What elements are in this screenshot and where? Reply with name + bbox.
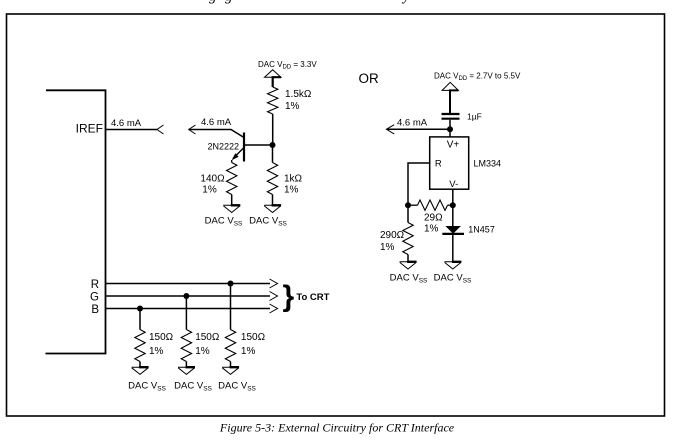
svg-text:OR: OR (359, 71, 380, 86)
svg-text:1µF: 1µF (467, 112, 482, 122)
svg-text:29Ω: 29Ω (424, 213, 443, 224)
svg-text:DAC VSS: DAC VSS (218, 381, 256, 393)
svg-text:Figure 5-3: External Circuitry: Figure 5-3: External Circuitry for CRT I… (219, 421, 455, 435)
svg-text:IREF: IREF (76, 122, 103, 136)
svg-text:1%: 1% (424, 224, 439, 235)
svg-text:g: g (225, 0, 233, 5)
svg-text:290Ω: 290Ω (380, 230, 405, 241)
svg-text:4.6 mA: 4.6 mA (111, 118, 142, 129)
svg-text:1%: 1% (285, 101, 300, 112)
svg-text:DAC VSS: DAC VSS (434, 273, 472, 285)
svg-text:1kΩ: 1kΩ (284, 174, 303, 185)
svg-text:1.5kΩ: 1.5kΩ (285, 89, 312, 100)
svg-text:DAC VSS: DAC VSS (128, 381, 166, 393)
svg-text:V-: V- (449, 179, 458, 190)
svg-text:R: R (91, 279, 99, 291)
svg-text:G: G (90, 292, 99, 304)
svg-text:R: R (435, 159, 442, 170)
svg-text:DAC VDD = 2.7V to 5.5V: DAC VDD = 2.7V to 5.5V (434, 72, 521, 83)
svg-text:140Ω: 140Ω (200, 174, 225, 185)
svg-text:1%: 1% (241, 346, 256, 357)
svg-text:DAC VDD = 3.3V: DAC VDD = 3.3V (258, 60, 317, 71)
svg-text:1%: 1% (284, 185, 299, 196)
svg-text:To CRT: To CRT (296, 292, 329, 303)
svg-text:1%: 1% (202, 185, 217, 196)
svg-text:1%: 1% (149, 346, 164, 357)
svg-text:}: } (283, 280, 295, 313)
svg-text:1N457: 1N457 (468, 225, 495, 235)
svg-text:4.6 mA: 4.6 mA (397, 118, 428, 129)
svg-text:1%: 1% (380, 242, 395, 253)
svg-text:DAC VSS: DAC VSS (174, 381, 212, 393)
svg-text:1%: 1% (195, 346, 210, 357)
svg-text:DAC VSS: DAC VSS (249, 216, 287, 228)
svg-text:g: g (209, 0, 217, 5)
svg-text:2N2222: 2N2222 (207, 142, 239, 152)
svg-text:4.6 mA: 4.6 mA (201, 117, 232, 128)
svg-text:V+: V+ (447, 139, 460, 150)
svg-text:y: y (401, 0, 410, 5)
svg-text:150Ω: 150Ω (149, 332, 174, 343)
svg-text:150Ω: 150Ω (241, 332, 266, 343)
svg-text:DAC VSS: DAC VSS (205, 216, 243, 228)
svg-text:DAC VSS: DAC VSS (390, 273, 428, 285)
svg-text:B: B (91, 304, 99, 316)
svg-text:LM334: LM334 (474, 159, 502, 169)
svg-text:150Ω: 150Ω (195, 332, 220, 343)
